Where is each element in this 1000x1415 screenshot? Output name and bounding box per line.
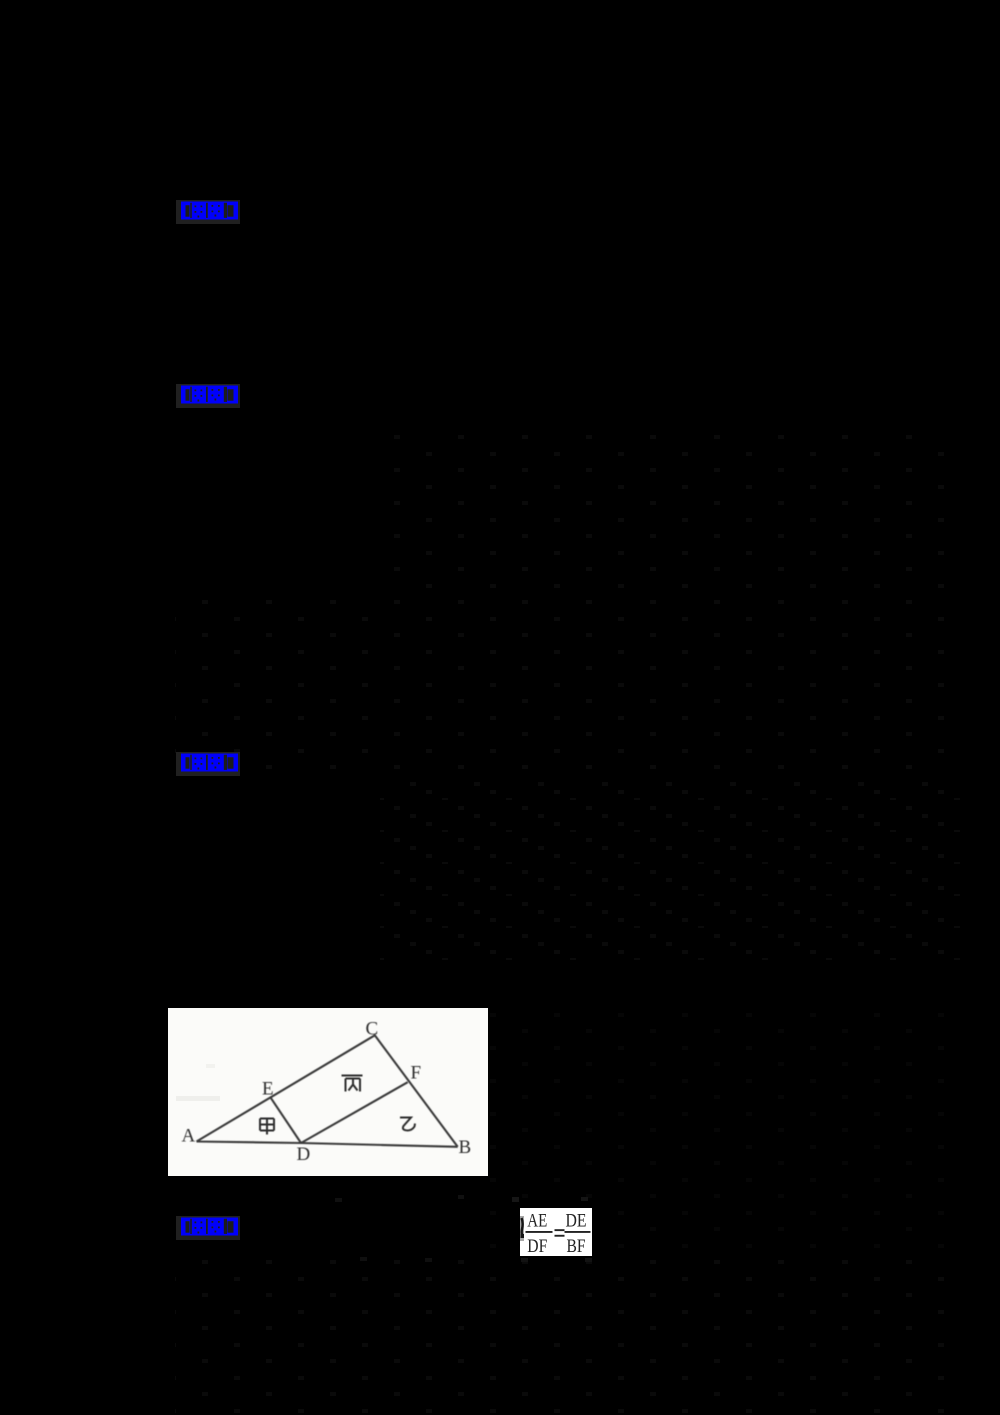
svg-text:C: C: [366, 1019, 379, 1040]
svg-text:D: D: [297, 1144, 311, 1165]
label tag 3: [176, 752, 240, 776]
bing: [342, 1076, 363, 1092]
label tag 4: [176, 1216, 240, 1240]
geometry figure image: [168, 1008, 488, 1176]
svg-text:AE: AE: [527, 1211, 547, 1232]
svg-text:B: B: [459, 1137, 472, 1158]
scan smudges: [176, 1096, 220, 1101]
triangle ABC: [197, 1035, 458, 1147]
svg-text:A: A: [182, 1126, 196, 1147]
svg-text:BF: BF: [567, 1236, 586, 1256]
svg-text:DF: DF: [527, 1236, 547, 1256]
faint text remnants around formula: [335, 1198, 342, 1202]
formula image: [520, 1208, 592, 1256]
jia: [260, 1119, 274, 1135]
svg-text:DE: DE: [566, 1211, 587, 1232]
svg-text:E: E: [262, 1079, 274, 1100]
segment DF: [301, 1082, 408, 1143]
yi: [400, 1118, 415, 1131]
label tag 1: [176, 200, 240, 224]
label tag 2: [176, 384, 240, 408]
segment ED: [271, 1097, 302, 1143]
svg-text:F: F: [411, 1063, 422, 1084]
